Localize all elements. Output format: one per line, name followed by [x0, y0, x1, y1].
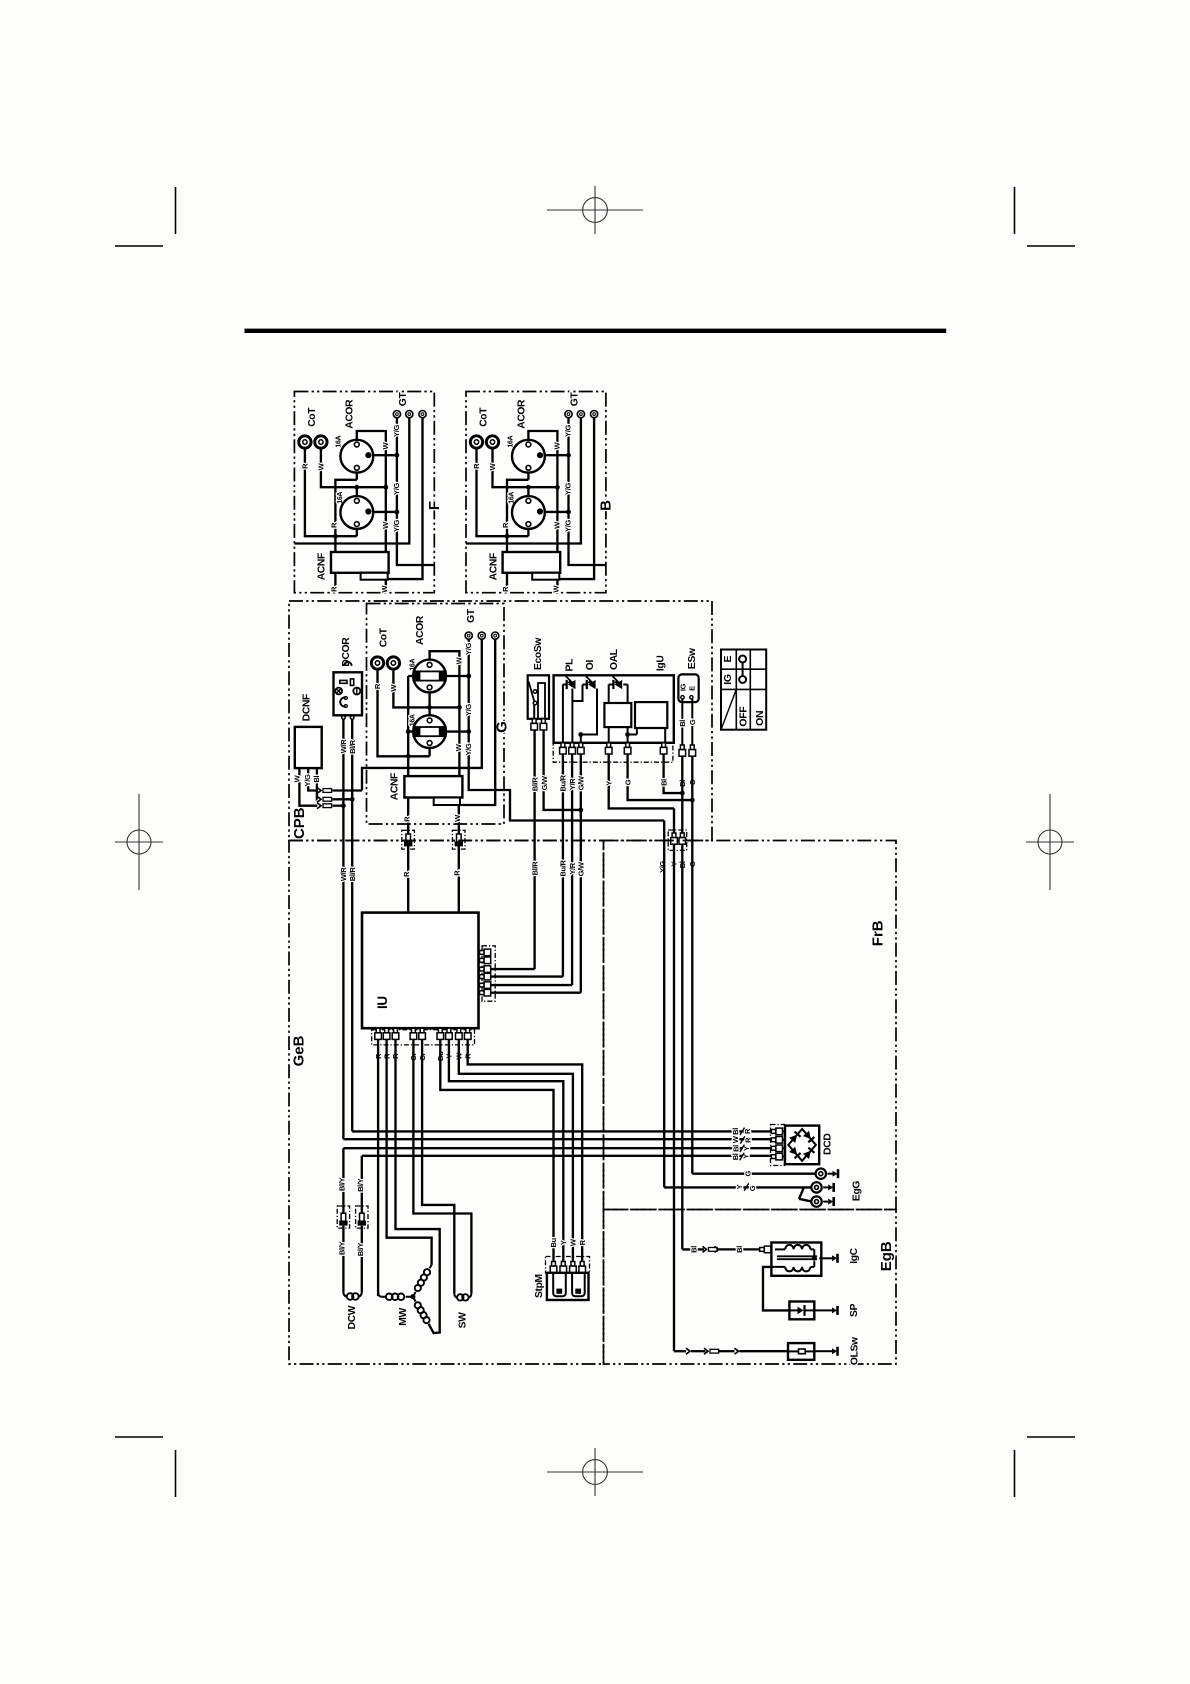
- svg-text:PL: PL: [565, 659, 576, 672]
- F GT terminal 3: [419, 411, 426, 418]
- box G border: [367, 604, 505, 825]
- svg-text:W: W: [731, 1135, 740, 1143]
- G ACOR receptacle 1: [413, 660, 446, 693]
- wire R net F: [305, 449, 357, 552]
- wire W net F: [321, 431, 386, 552]
- wire R G-ACNF to IU: [407, 798, 409, 913]
- G ACOR receptacle 2: [413, 715, 446, 748]
- svg-text:E: E: [687, 686, 696, 691]
- svg-text:Bl: Bl: [678, 720, 687, 727]
- lamp unit pins: [561, 743, 565, 748]
- lamp OI: [588, 680, 596, 689]
- DCD pin stubs: [783, 1131, 785, 1156]
- svg-text:Bl: Bl: [732, 1145, 741, 1152]
- svg-text:R: R: [744, 1137, 753, 1143]
- svg-text:W/R: W/R: [339, 739, 348, 753]
- svg-text:Bu/R: Bu/R: [559, 860, 568, 877]
- StpM pins: [552, 1262, 556, 1267]
- DCD label slashes: [740, 1128, 745, 1135]
- svg-text:G: G: [748, 1185, 757, 1191]
- B GT terminal 1: [565, 411, 572, 418]
- svg-text:ACOR: ACOR: [345, 399, 356, 429]
- EgG ground 3: [823, 1201, 828, 1203]
- wire IgC to SP: [763, 1267, 789, 1311]
- G GT terminal 1: [465, 632, 472, 639]
- svg-text:ACNF: ACNF: [317, 553, 328, 580]
- wire G from IgU: [628, 754, 693, 800]
- DCNF noise filter: [295, 727, 322, 768]
- wire Bl/R EcoSw to IU: [533, 730, 535, 969]
- junction dot G: [690, 798, 695, 803]
- svg-text:Y/R: Y/R: [568, 778, 577, 790]
- wire G/W to IU: [580, 754, 582, 993]
- wire GT2 B: [466, 418, 581, 544]
- wire W to StpM: [459, 1040, 573, 1261]
- box EgB border: [604, 1210, 897, 1365]
- wire G ESw down: [691, 756, 693, 1173]
- wire GT3 B: [532, 418, 594, 579]
- svg-text:ON: ON: [754, 711, 766, 726]
- IgC core: [777, 1255, 817, 1257]
- svg-text:Bl/Y: Bl/Y: [356, 1243, 365, 1257]
- G GT terminal 3: [492, 632, 499, 639]
- junction dots B: [505, 534, 510, 539]
- svg-text:IgU: IgU: [655, 656, 666, 672]
- wire Bl/Y bus right: [362, 1156, 772, 1213]
- wire W G-ACNF to IU: [458, 805, 460, 913]
- svg-text:Bl/Y: Bl/Y: [338, 1242, 347, 1256]
- svg-text:G: G: [623, 779, 632, 785]
- DCW left fuse box: [337, 1206, 349, 1228]
- B CoT terminal 1: [470, 436, 482, 448]
- svg-text:CoT: CoT: [379, 627, 390, 647]
- DCD diamond: [788, 1129, 816, 1161]
- lamp unit internal wires: [563, 685, 573, 743]
- wire Bu to StpM: [440, 1040, 553, 1261]
- junction dot W to W/R: [341, 803, 346, 808]
- wire R2 to MW: [387, 1040, 432, 1265]
- wire W/R bus: [343, 1138, 771, 1140]
- F ACNF noise filter: [331, 552, 389, 573]
- F ACOR receptacle 2: [340, 496, 373, 529]
- G CoT terminal 2: [387, 657, 399, 669]
- wire Bl ESw down: [681, 756, 683, 1249]
- svg-text:ACNF: ACNF: [488, 553, 499, 580]
- svg-text:Y/G: Y/G: [564, 425, 573, 437]
- junction dot IgC: [812, 1256, 817, 1261]
- junction dots F: [333, 534, 338, 539]
- StpM motor box: [547, 1273, 589, 1300]
- svg-text:Bl/R: Bl/R: [348, 739, 357, 754]
- wire Bl/R from DCOR: [351, 719, 353, 1131]
- wire Bl/Y bus left: [343, 1148, 771, 1213]
- wire Y to StpM: [449, 1040, 563, 1261]
- DCD pins: [771, 1130, 776, 1134]
- svg-text:16A: 16A: [507, 436, 514, 448]
- wire W net B: [493, 431, 558, 552]
- svg-text:Bl/R: Bl/R: [530, 861, 539, 876]
- svg-text:IG: IG: [679, 683, 688, 691]
- svg-text:Y/G: Y/G: [464, 743, 473, 755]
- IgC output: [819, 1257, 827, 1259]
- MW winding: [378, 1293, 385, 1297]
- svg-text:IG: IG: [722, 674, 734, 685]
- svg-text:G/W: G/W: [540, 775, 549, 790]
- wire Y/G net B: [543, 418, 606, 565]
- IgU inner box 1: [604, 703, 631, 727]
- fuse R: [402, 830, 415, 849]
- B GT terminal 3: [591, 411, 598, 418]
- wire R net B: [477, 449, 529, 552]
- svg-text:Bl: Bl: [735, 1246, 744, 1253]
- F ACOR receptacle 1: [340, 440, 373, 473]
- IU inverter unit box: [362, 913, 479, 1029]
- svg-text:16A: 16A: [337, 492, 344, 504]
- svg-text:G: G: [744, 1170, 753, 1176]
- svg-text:R: R: [402, 816, 411, 822]
- IgC pin: [760, 1248, 765, 1252]
- svg-text:OI: OI: [585, 660, 596, 671]
- wire Y/G net F: [371, 418, 434, 565]
- EgG slash: [744, 1183, 749, 1190]
- wire pin to IgC: [771, 1248, 775, 1250]
- DCNF wire Y/G: [308, 768, 317, 790]
- svg-text:Bl: Bl: [312, 776, 321, 783]
- wire Bl/Y DCW left: [342, 1226, 344, 1292]
- svg-text:EgB: EgB: [878, 1241, 895, 1271]
- svg-text:Bl: Bl: [731, 1128, 740, 1135]
- wire Gr1 to SW: [413, 1040, 471, 1293]
- registration mark mid-left: [115, 794, 163, 890]
- svg-text:Y/G: Y/G: [464, 704, 473, 716]
- DCNF wire Bl: [316, 768, 319, 799]
- DCW right fuse box: [356, 1206, 368, 1228]
- wire Bl/Y DCW right: [361, 1226, 363, 1292]
- ESw wires to pins: [682, 699, 692, 745]
- OLSw ground: [827, 1350, 832, 1352]
- DCNF wire W: [299, 768, 317, 806]
- svg-text:G: G: [688, 719, 697, 725]
- wire GT2 G to DCNF: [362, 640, 482, 791]
- F ACNF output wires: [335, 573, 385, 592]
- svg-text:W: W: [453, 814, 462, 822]
- wire Bu/R to IU: [562, 754, 564, 976]
- svg-text:DCNF: DCNF: [301, 694, 312, 721]
- svg-text:Bl/R: Bl/R: [530, 777, 539, 792]
- crop mark top-left: [175, 187, 177, 234]
- box F border: [294, 392, 434, 593]
- registration mark mid-right: [1026, 794, 1074, 890]
- IU right pins: [482, 946, 495, 1001]
- svg-text:B: B: [598, 500, 615, 511]
- svg-text:R: R: [501, 586, 510, 592]
- registration mark top-center: [547, 186, 643, 234]
- svg-text:Y/G: Y/G: [392, 520, 401, 532]
- box GeB border: [289, 841, 604, 1365]
- svg-text:Bu: Bu: [549, 1237, 558, 1247]
- svg-text:FrB: FrB: [870, 920, 887, 946]
- svg-text:Y: Y: [559, 1240, 568, 1245]
- wire GT2 F: [294, 418, 409, 544]
- IgC primary: [775, 1248, 785, 1250]
- wire Y/G down to FrB: [663, 821, 665, 1188]
- F CoT terminal 2: [315, 436, 327, 448]
- wire G/W EcoSw: [544, 730, 581, 810]
- wire Y to OLSw: [674, 1350, 686, 1352]
- wire Y/G to EgG: [664, 1187, 810, 1201]
- crop mark bottom-right: [1014, 1450, 1016, 1497]
- EgG terminal 2: [811, 1182, 821, 1192]
- wire GT3 F: [361, 418, 423, 579]
- IU bottom pins: [372, 1030, 475, 1045]
- wire Y down to OLSw: [673, 808, 675, 1351]
- svg-text:StpM: StpM: [534, 1274, 545, 1298]
- wire Bl to IgC: [682, 1248, 704, 1250]
- ESw engine switch: [678, 674, 698, 702]
- DCW winding: [343, 1292, 347, 1297]
- EgG terminal 1: [816, 1169, 826, 1179]
- IgC secondary: [785, 1267, 810, 1272]
- lamp OAL: [615, 680, 623, 689]
- B GT terminal 2: [577, 411, 584, 418]
- svg-text:EgG: EgG: [852, 1181, 863, 1201]
- DCD diodes: [789, 1132, 800, 1143]
- DCD rectifier box: [785, 1126, 819, 1165]
- svg-text:GT: GT: [398, 392, 409, 407]
- svg-text:IU: IU: [375, 996, 390, 1009]
- svg-text:Y/G: Y/G: [392, 483, 401, 495]
- svg-text:ACOR: ACOR: [415, 615, 426, 645]
- IgU inner box 2: [635, 702, 667, 728]
- svg-text:ACNF: ACNF: [390, 773, 401, 800]
- wire R3 to MW: [396, 1040, 440, 1333]
- svg-text:OFF: OFF: [738, 706, 750, 727]
- EgG terminal 3: [811, 1196, 821, 1206]
- svg-text:Y: Y: [604, 781, 613, 786]
- F CoT terminal 1: [299, 436, 311, 448]
- wire W net G: [393, 651, 459, 776]
- connector pins Y Bl: [668, 830, 687, 850]
- svg-text:G/W: G/W: [577, 775, 586, 790]
- G CoT terminal 1: [371, 657, 383, 669]
- svg-text:Y/G: Y/G: [658, 860, 667, 872]
- svg-text:Y/G: Y/G: [464, 643, 473, 655]
- svg-text:DCD: DCD: [822, 1134, 833, 1155]
- svg-text:OAL: OAL: [609, 649, 620, 670]
- G GT terminal 2: [478, 632, 485, 639]
- svg-text:W: W: [380, 585, 389, 593]
- crop mark bottom-left: [175, 1450, 177, 1497]
- svg-text:SP: SP: [849, 1303, 860, 1317]
- crop mark top-right: [1014, 187, 1016, 234]
- svg-text:IgC: IgC: [849, 1247, 860, 1263]
- svg-text:CoT: CoT: [479, 407, 490, 427]
- OLSw output: [814, 1350, 827, 1352]
- SW winding: [454, 1293, 457, 1297]
- header rule: [245, 329, 947, 333]
- wire R4 to StpM: [468, 1040, 583, 1261]
- svg-text:Y/R: Y/R: [568, 862, 577, 874]
- wire Y/G net G: [446, 640, 664, 821]
- junction dot Bl to Bl/R: [350, 797, 355, 802]
- B ACNF output wires: [507, 573, 557, 592]
- svg-text:16A: 16A: [508, 492, 515, 504]
- svg-text:Y: Y: [735, 1184, 744, 1189]
- svg-text:Bl: Bl: [731, 1153, 740, 1160]
- EgG ground 1: [828, 1173, 833, 1175]
- svg-text:Bl/R: Bl/R: [348, 867, 357, 882]
- switch position table: [721, 650, 766, 730]
- box B border: [466, 392, 606, 593]
- junction dots G: [406, 754, 411, 759]
- wire GT3 G to ACNF case: [460, 640, 495, 806]
- svg-text:16A: 16A: [336, 436, 343, 448]
- svg-text:Y/G: Y/G: [564, 520, 573, 532]
- lamp PL: [568, 680, 576, 689]
- wire R net G: [378, 670, 430, 777]
- SP ground: [827, 1309, 832, 1311]
- svg-text:Y/G: Y/G: [392, 425, 401, 437]
- svg-text:OLSw: OLSw: [850, 1336, 861, 1365]
- wire G to EgG: [692, 1173, 814, 1175]
- EcoSw switch: [528, 675, 549, 719]
- svg-text:CPB: CPB: [291, 807, 308, 839]
- StpM pin box: [546, 1257, 590, 1274]
- wire W/R from DCOR: [342, 719, 344, 1139]
- svg-text:ACOR: ACOR: [516, 399, 527, 429]
- svg-text:R: R: [329, 522, 338, 528]
- EcoSw pins: [532, 719, 536, 724]
- svg-text:W: W: [552, 585, 561, 593]
- wire Bl from IgU: [664, 754, 683, 793]
- svg-text:CoT: CoT: [307, 407, 318, 427]
- svg-text:W/R: W/R: [339, 867, 348, 881]
- box FrB border: [604, 841, 897, 1210]
- B ACOR receptacle 1: [512, 440, 545, 473]
- svg-text:R: R: [402, 871, 411, 877]
- G ACNF noise filter: [404, 776, 462, 797]
- svg-text:Bl: Bl: [659, 779, 668, 786]
- junction dot G/W: [578, 808, 583, 813]
- DCD pins box: [771, 1125, 785, 1166]
- svg-text:Y/G: Y/G: [564, 483, 573, 495]
- svg-text:R: R: [501, 522, 510, 528]
- IU right pin wires: [491, 969, 581, 993]
- B ACOR receptacle 2: [512, 496, 545, 529]
- B CoT terminal 2: [486, 436, 498, 448]
- lamp unit pin sub-box: [553, 743, 673, 762]
- wire R1 to MW: [377, 1040, 379, 1296]
- junction dots lamp unit: [578, 732, 583, 737]
- svg-text:SW: SW: [457, 1312, 468, 1329]
- ESw pins: [680, 745, 684, 750]
- svg-text:Y/G: Y/G: [303, 774, 312, 786]
- OLSw oil level switch box: [788, 1343, 814, 1360]
- lamp unit box: [554, 675, 674, 743]
- wire Bl/R bus: [352, 1130, 771, 1132]
- svg-text:GT: GT: [466, 608, 477, 623]
- fuse W: [452, 830, 465, 849]
- svg-text:Bu/R: Bu/R: [559, 774, 568, 791]
- svg-text:R: R: [330, 586, 339, 592]
- svg-text:GeB: GeB: [291, 1035, 308, 1066]
- svg-text:Bl/Y: Bl/Y: [356, 1178, 365, 1192]
- wire Y/R to IU: [571, 754, 573, 985]
- wire Y from IgU: [609, 754, 674, 808]
- SP spark plug box: [789, 1302, 814, 1320]
- svg-text:G/W: G/W: [577, 861, 586, 876]
- svg-text:DCW: DCW: [347, 1305, 358, 1329]
- DCOR dc receptacle: [344, 662, 352, 666]
- svg-text:F: F: [426, 501, 443, 510]
- svg-text:EcoSw: EcoSw: [533, 637, 544, 670]
- F GT terminal 1: [393, 411, 400, 418]
- IgC ground: [827, 1257, 832, 1259]
- SP output: [814, 1309, 827, 1311]
- svg-text:ESw: ESw: [687, 647, 698, 669]
- wire Gr2 to SW: [422, 1040, 454, 1293]
- svg-text:GT: GT: [570, 392, 581, 407]
- svg-text:E: E: [722, 655, 734, 662]
- F GT terminal 2: [406, 411, 413, 418]
- box CPB border: [289, 601, 712, 841]
- registration mark bottom-center: [547, 1448, 643, 1496]
- B ACNF noise filter: [503, 552, 561, 573]
- svg-text:Bl/Y: Bl/Y: [338, 1178, 347, 1192]
- IgC ignition coil box: [771, 1243, 821, 1276]
- EgG ground 2: [823, 1186, 828, 1188]
- svg-text:MW: MW: [398, 1307, 409, 1325]
- svg-text:Bl: Bl: [689, 1246, 698, 1253]
- junction dot Bl: [680, 791, 685, 796]
